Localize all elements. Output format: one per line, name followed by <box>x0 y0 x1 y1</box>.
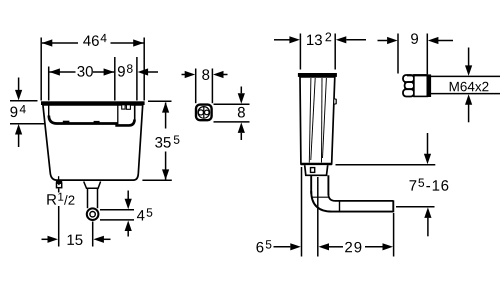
button recess left wall <box>117 105 119 124</box>
dim 46.4: label 46^4 <box>83 34 106 46</box>
side interior draft line 4 <box>323 78 327 158</box>
dim 8 vertical: extension line top <box>214 103 250 105</box>
actuation small circle left <box>198 110 203 115</box>
dim 4.5: extension line bottom <box>100 219 134 221</box>
dim 35.5: extension line bottom <box>142 179 171 181</box>
pipe end outer ring <box>87 208 99 220</box>
flush bend vertical pipe right wall <box>327 175 329 195</box>
dim 8 vertical: down arrow <box>240 87 242 94</box>
fitting knurl lobe 1 <box>403 75 414 82</box>
flush bend outer curve and bottom edge <box>311 191 393 212</box>
side wall clip bump <box>334 99 336 104</box>
dim 13.2: extension line right <box>334 34 336 70</box>
dim 8 horizontal: extension line right <box>211 69 213 104</box>
water inlet valve shank above bottom <box>58 176 60 180</box>
inner tub bottom (thick) <box>49 116 118 124</box>
side interior draft line 3 <box>321 78 324 163</box>
dim 6.5/29: extension line pipe axis <box>317 177 319 257</box>
dim 7.5-16: up arrow <box>427 218 429 237</box>
fitting body top thick edge <box>407 74 427 76</box>
dim 8 vertical: label <box>238 107 245 118</box>
dim 15: outside arrow right <box>103 238 110 240</box>
dim 9.4: down arrow above <box>18 78 20 91</box>
dim 7.5-16: extension line bottom <box>396 206 435 208</box>
dim 35.5: vertical dimension line with outward arrows <box>165 103 167 129</box>
label R 1/2 with white backing <box>45 193 76 207</box>
dim M64x2: down arrow <box>468 48 470 67</box>
side view body outline <box>300 77 335 164</box>
fitting flange <box>427 74 431 97</box>
dim 15: extension line right (below pipe) <box>92 222 94 247</box>
dim M64x2: extension line top <box>431 75 500 77</box>
fitting knurl band line 2 <box>404 88 416 90</box>
fitting knurl lobe 2 <box>405 82 414 89</box>
dim 8 horizontal: extension line left <box>195 69 197 104</box>
dim 9.8: label 9^8 <box>118 64 133 76</box>
inner tub left wall <box>48 105 50 117</box>
dim 15: outside arrow left <box>42 238 49 240</box>
dim 46.4: dimension line with outward arrows <box>42 42 78 44</box>
fitting knurl band line 1 <box>404 81 416 83</box>
cistern body outline (front view) <box>43 105 143 180</box>
flush bend joint line <box>311 196 328 198</box>
flush pipe stub (trapezoid) <box>84 182 101 189</box>
dim 4.5: up arrow <box>127 231 129 237</box>
dim 35.5: extension line top <box>148 100 172 102</box>
dim 4.5: down arrow <box>127 191 129 200</box>
flush bend horizontal joint line <box>339 201 341 212</box>
dim 30: extension line right <box>114 57 116 101</box>
side view bottom edge thick <box>301 163 332 165</box>
button recess bottom (thick) <box>115 120 134 126</box>
side interior draft line 1 <box>309 78 311 163</box>
dim 30: extension line left <box>48 67 50 101</box>
water inlet R1/2 peg body <box>57 183 62 188</box>
water inlet peg notch <box>58 183 59 185</box>
dim 7.5-16: label 7^5-16 <box>409 179 448 191</box>
water inlet R1/2 peg collar <box>56 181 62 183</box>
dim 15: extension line left (below peg) <box>58 189 60 193</box>
flush bend vertical pipe left wall <box>310 175 312 193</box>
dim 30: dimension line with outward arrows <box>49 71 75 73</box>
dim 9 fitting: extension line left <box>397 34 399 74</box>
dim 8 horizontal: label <box>202 69 209 80</box>
pipe end inner ring <box>90 212 95 217</box>
dim 9.4: label 9^4 <box>10 105 25 117</box>
dim 46.4 top: extension line right <box>143 38 145 101</box>
dim 7.5-16: extension line top <box>336 164 436 166</box>
dim 4.5: extension line top <box>100 209 134 211</box>
dim 6.5: outside arrow <box>274 246 291 248</box>
dim M64x2: extension line bottom <box>431 93 500 95</box>
fitting body <box>414 75 427 97</box>
dim 15: label <box>68 235 83 245</box>
actuation split line <box>203 107 205 118</box>
actuation small circle right <box>205 110 210 115</box>
dim 6.5: extension tick at tank face <box>301 167 303 257</box>
outlet neck notch <box>311 168 315 173</box>
dim 8 vertical: up arrow <box>240 133 242 140</box>
side view lid <box>298 73 337 77</box>
dim 9 fitting: outside arrow left <box>378 40 388 42</box>
dim 9 fitting: outside arrow right <box>438 40 453 42</box>
dim 8 horizontal: outside arrows <box>182 74 186 76</box>
flush pipe left wall <box>87 188 89 208</box>
actuation button outer square <box>196 105 212 121</box>
dim 9.4 left: extension line top <box>10 100 38 102</box>
actuation button bezel circle <box>198 107 210 119</box>
dim 7.5-16: down arrow <box>427 133 429 154</box>
dim 29: label <box>345 242 361 253</box>
dim 13.2: label 13^2 <box>307 32 331 45</box>
flush pipe right wall <box>97 188 99 208</box>
dim 9 fitting: label <box>411 33 418 44</box>
boss on tub bottom left <box>63 121 70 124</box>
dim 9 fitting: extension line right <box>426 34 428 75</box>
fitting knurl lobe 3 <box>403 89 414 96</box>
boss on tub bottom right <box>94 121 100 124</box>
side interior draft line 2 <box>311 78 315 160</box>
cistern lid (front view) <box>41 101 145 105</box>
dim 9.4: up arrow below <box>18 134 20 147</box>
dim 9.8: outside arrow from right <box>148 71 159 73</box>
dim 9.8: extension line right <box>136 57 138 101</box>
dim 13.2: extension line left <box>299 34 301 70</box>
fitting flange highlight <box>428 75 430 96</box>
dim 46.4 top: extension line left <box>40 38 42 101</box>
dim 29: dimension line with outward arrows <box>329 246 343 248</box>
dim M64x2: up arrow <box>468 104 470 123</box>
flush bend inner curve and top edge <box>328 194 393 201</box>
dim 29: extension line at pipe end <box>393 213 395 257</box>
flush button small left <box>122 105 125 109</box>
dim 30: label <box>77 66 93 77</box>
dim 9.4 left: extension line bottom <box>10 123 47 125</box>
dim M64x2: label <box>450 82 489 92</box>
flush bend pipe end <box>392 200 394 212</box>
dim 13.2: outside arrow left <box>274 39 290 41</box>
dim 6.5: label 6^5 <box>256 240 271 252</box>
dim 4.5: label 4^5 <box>137 208 152 220</box>
dim 8 vertical: extension line bottom <box>214 121 250 123</box>
flush button small right <box>126 105 130 110</box>
dim 13.2: outside arrow right <box>346 39 366 41</box>
button recess right wall <box>134 105 136 120</box>
outlet neck trapezoid <box>305 165 328 175</box>
dim 35.5: label 35^5 <box>155 135 179 147</box>
